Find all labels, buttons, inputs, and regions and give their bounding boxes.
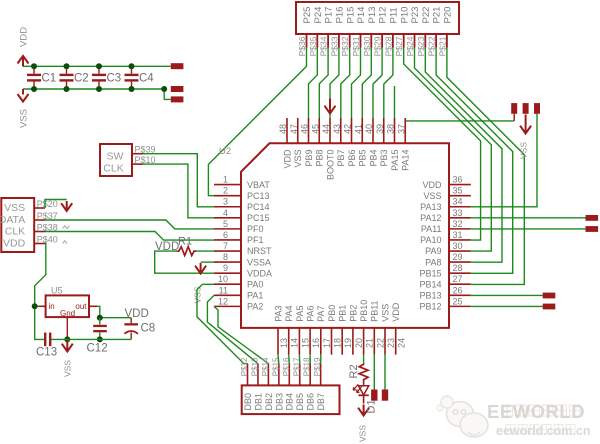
svg-text:PB9: PB9 <box>304 150 314 167</box>
svg-text:D1: D1 <box>366 399 378 413</box>
svg-text:PA9: PA9 <box>425 246 441 256</box>
svg-text:PB14: PB14 <box>419 279 441 289</box>
svg-text:15: 15 <box>300 338 310 348</box>
svg-text:VDD: VDD <box>19 27 30 47</box>
svg-text:18: 18 <box>333 338 343 348</box>
svg-text:C12: C12 <box>87 343 108 355</box>
svg-text:P15: P15 <box>345 7 356 24</box>
svg-text:VDD: VDD <box>282 149 292 169</box>
svg-text:16: 16 <box>311 338 321 348</box>
svg-text:C8: C8 <box>141 323 156 335</box>
svg-text:PA0: PA0 <box>247 279 263 289</box>
svg-text:P$21: P$21 <box>437 36 447 56</box>
svg-text:PA13: PA13 <box>420 202 441 212</box>
svg-text:VSS: VSS <box>380 304 390 322</box>
svg-text:BOOT0: BOOT0 <box>325 150 335 181</box>
svg-text:C3: C3 <box>107 73 122 85</box>
svg-text:P$27: P$27 <box>394 36 404 56</box>
svg-text:21: 21 <box>365 338 375 348</box>
svg-text:PB4: PB4 <box>368 150 378 167</box>
svg-text:SW: SW <box>107 151 124 163</box>
svg-text:13: 13 <box>279 338 289 348</box>
svg-text:31: 31 <box>452 230 462 240</box>
svg-text:PF1: PF1 <box>247 235 264 245</box>
svg-text:VSS: VSS <box>63 360 73 377</box>
svg-text:VDD: VDD <box>3 237 26 249</box>
svg-text:23: 23 <box>386 338 396 348</box>
svg-text:2: 2 <box>223 186 228 196</box>
svg-text:VBAT: VBAT <box>247 180 270 190</box>
svg-text:VSSA: VSSA <box>247 257 271 267</box>
svg-text:PA5: PA5 <box>295 305 305 321</box>
svg-text:CLK: CLK <box>5 225 25 237</box>
svg-text:P$34: P$34 <box>319 36 329 56</box>
svg-text:DB4: DB4 <box>285 393 295 411</box>
svg-text:P14: P14 <box>356 7 367 24</box>
svg-text:P17: P17 <box>324 7 335 24</box>
svg-text:PB1: PB1 <box>338 305 348 322</box>
svg-text:P$35: P$35 <box>308 36 318 56</box>
svg-text:VSS: VSS <box>4 202 25 214</box>
svg-text:PA12: PA12 <box>420 213 441 223</box>
svg-text:P$31: P$31 <box>351 36 361 56</box>
svg-text:27: 27 <box>452 274 462 284</box>
svg-text:DB3: DB3 <box>274 393 284 411</box>
svg-text:22: 22 <box>375 338 385 348</box>
svg-text:11: 11 <box>219 285 228 295</box>
svg-text:43: 43 <box>332 124 342 134</box>
svg-text:P11: P11 <box>389 7 400 23</box>
svg-text:P16: P16 <box>335 7 346 24</box>
svg-text:U2: U2 <box>219 146 231 157</box>
svg-text:P$14: P$14 <box>261 357 270 376</box>
svg-text:VSS: VSS <box>423 191 441 201</box>
svg-text:19: 19 <box>343 338 353 348</box>
svg-text:36: 36 <box>452 175 462 185</box>
svg-text:PA11: PA11 <box>421 224 442 234</box>
svg-text:PB12: PB12 <box>419 302 441 312</box>
svg-text:30: 30 <box>452 241 462 251</box>
svg-text:PB13: PB13 <box>419 291 441 301</box>
svg-text:PA1: PA1 <box>247 291 263 301</box>
svg-text:PB10: PB10 <box>359 300 369 322</box>
svg-text:P$13: P$13 <box>250 357 259 376</box>
svg-text:P$39: P$39 <box>135 144 156 154</box>
svg-text:DB2: DB2 <box>264 393 274 411</box>
svg-text:PA6: PA6 <box>306 305 316 321</box>
svg-text:P22: P22 <box>421 7 432 24</box>
svg-text:VDDA: VDDA <box>247 268 272 278</box>
svg-text:1: 1 <box>223 175 228 185</box>
svg-text:33: 33 <box>452 208 462 218</box>
svg-text:P13: P13 <box>367 7 378 24</box>
svg-text:DB5: DB5 <box>295 393 305 411</box>
svg-text:P$40: P$40 <box>37 235 58 245</box>
svg-text:PA10: PA10 <box>420 235 441 245</box>
svg-text:P12: P12 <box>378 7 389 24</box>
svg-text:PA3: PA3 <box>273 305 283 321</box>
svg-text:DB7: DB7 <box>316 393 326 411</box>
svg-text:PB3: PB3 <box>379 150 389 167</box>
svg-text:P21: P21 <box>432 7 443 24</box>
svg-text:34: 34 <box>452 197 462 207</box>
svg-text:VDD: VDD <box>391 302 401 322</box>
svg-text:7: 7 <box>223 241 228 251</box>
svg-text:42: 42 <box>343 124 353 134</box>
svg-text:P$33: P$33 <box>329 36 339 56</box>
svg-text:20: 20 <box>354 338 364 348</box>
svg-text:VSS: VSS <box>19 109 30 128</box>
svg-text:P$32: P$32 <box>340 36 350 56</box>
svg-text:DB0: DB0 <box>243 393 253 411</box>
svg-text:38: 38 <box>386 124 396 134</box>
svg-text:C1: C1 <box>42 73 57 85</box>
svg-text:PC14: PC14 <box>247 202 270 212</box>
svg-text:PB11: PB11 <box>370 300 380 321</box>
svg-text:PB5: PB5 <box>358 150 368 167</box>
svg-text:46: 46 <box>300 124 310 134</box>
svg-text:U5: U5 <box>51 286 63 296</box>
svg-text:NRST: NRST <box>247 246 272 256</box>
svg-text:47: 47 <box>289 124 299 134</box>
svg-text:35: 35 <box>452 186 462 196</box>
svg-text:PA8: PA8 <box>425 257 441 267</box>
svg-text:VSS: VSS <box>293 150 303 168</box>
svg-text:29: 29 <box>452 252 462 262</box>
svg-text:8: 8 <box>223 252 228 262</box>
svg-text:39: 39 <box>375 124 385 134</box>
svg-text:5: 5 <box>223 219 228 229</box>
svg-text:P$12: P$12 <box>240 357 249 376</box>
svg-text:C4: C4 <box>139 73 154 85</box>
svg-text:25: 25 <box>452 296 462 306</box>
svg-text:PA14: PA14 <box>401 150 411 171</box>
svg-text:24: 24 <box>397 338 407 348</box>
svg-text:PB2: PB2 <box>348 305 358 322</box>
svg-text:PA7: PA7 <box>316 305 326 321</box>
svg-text:41: 41 <box>353 124 363 134</box>
svg-text:P$24: P$24 <box>405 36 415 56</box>
svg-text:PB8: PB8 <box>315 150 325 167</box>
svg-text:44: 44 <box>321 124 331 134</box>
svg-text:Gnd: Gnd <box>60 309 75 318</box>
svg-text:P23: P23 <box>410 7 421 24</box>
svg-text:out: out <box>75 302 87 311</box>
svg-text:PB0: PB0 <box>327 305 337 322</box>
svg-text:PA15: PA15 <box>390 150 400 171</box>
svg-text:PC15: PC15 <box>247 213 270 223</box>
svg-text:45: 45 <box>310 124 320 134</box>
svg-text:P$28: P$28 <box>383 36 393 56</box>
svg-text:CLK: CLK <box>103 163 123 175</box>
svg-text:VSS: VSS <box>519 142 529 159</box>
svg-text:PA2: PA2 <box>247 302 263 312</box>
svg-text:4: 4 <box>223 208 228 218</box>
svg-text:C2: C2 <box>74 73 89 85</box>
svg-text:PB15: PB15 <box>419 268 441 278</box>
svg-text:26: 26 <box>452 285 462 295</box>
svg-text:40: 40 <box>364 124 374 134</box>
svg-text:P$29: P$29 <box>373 36 383 56</box>
svg-text:P$30: P$30 <box>362 36 372 56</box>
svg-text:PC13: PC13 <box>247 191 270 201</box>
svg-text:in: in <box>49 302 55 311</box>
svg-text:28: 28 <box>452 263 462 273</box>
svg-text:48: 48 <box>278 124 288 134</box>
svg-text:DATA: DATA <box>0 214 25 226</box>
svg-text:PB6: PB6 <box>347 150 357 167</box>
svg-text:P$23: P$23 <box>416 36 426 56</box>
svg-text:37: 37 <box>396 124 406 134</box>
svg-text:DB1: DB1 <box>253 393 263 411</box>
svg-text:PA4: PA4 <box>284 305 294 321</box>
svg-text:P$36: P$36 <box>297 36 307 56</box>
svg-text:C13: C13 <box>36 347 57 359</box>
svg-text:DB6: DB6 <box>306 393 316 411</box>
svg-text:P$22: P$22 <box>427 36 437 56</box>
svg-text:PF0: PF0 <box>247 224 264 234</box>
svg-text:VDD: VDD <box>422 180 442 190</box>
svg-text:32: 32 <box>452 219 462 229</box>
svg-text:VDD: VDD <box>125 308 149 320</box>
svg-text:P20: P20 <box>443 7 454 24</box>
svg-text:VSS: VSS <box>358 425 368 442</box>
svg-text:P25: P25 <box>302 7 313 24</box>
svg-text:3: 3 <box>223 197 228 207</box>
svg-text:PB7: PB7 <box>336 150 346 167</box>
svg-text:P10: P10 <box>399 7 410 24</box>
svg-text:9: 9 <box>223 263 228 273</box>
svg-text:eeworld.com.cn: eeworld.com.cn <box>496 424 590 438</box>
svg-text:6: 6 <box>223 230 228 240</box>
svg-text:R1: R1 <box>178 236 192 248</box>
svg-text:10: 10 <box>218 274 228 284</box>
svg-text:P24: P24 <box>313 7 324 24</box>
svg-text:EEWORLD: EEWORLD <box>487 401 585 422</box>
svg-text:P$20: P$20 <box>37 199 58 209</box>
svg-text:12: 12 <box>218 296 228 306</box>
svg-text:P$10: P$10 <box>135 155 156 165</box>
svg-text:17: 17 <box>322 338 332 348</box>
svg-text:14: 14 <box>290 338 300 348</box>
